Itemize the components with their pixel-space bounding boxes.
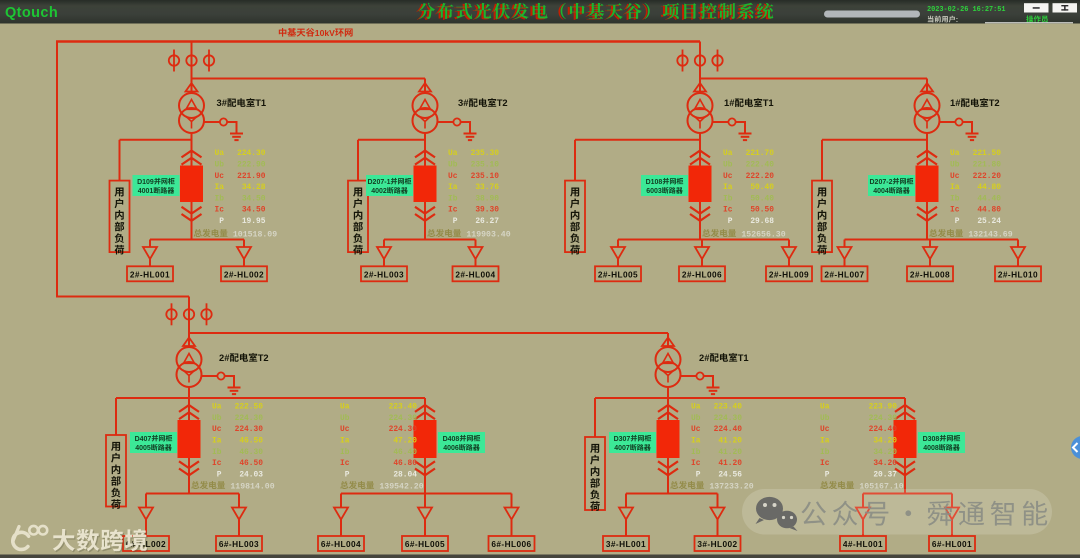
svg-text:Uc: Uc (212, 425, 222, 434)
svg-text:Ub: Ub (723, 161, 733, 170)
svg-text:224.30: 224.30 (869, 414, 898, 423)
svg-text:Ic: Ic (950, 206, 960, 215)
drawout contacts above breaker 4008断路器 (895, 405, 915, 412)
svg-text:Uc: Uc (820, 425, 830, 434)
svg-text:224.30: 224.30 (714, 414, 743, 423)
svg-text:235.30: 235.30 (471, 149, 500, 158)
svg-text:P: P (950, 217, 960, 226)
feeder wire 2#-HL003 (383, 240, 385, 248)
svg-text:224.40: 224.40 (869, 425, 898, 434)
wire riser to feeders 3#配电室T1 (191, 133, 193, 240)
riser wire 1#配电室T2 (926, 79, 928, 94)
feeder wire 6#-HL002 (145, 494, 147, 508)
feeder wire 3#-HL001 (625, 494, 627, 508)
svg-text:139542.20: 139542.20 (379, 482, 423, 491)
feeder wire 2#-HL006 (701, 240, 703, 248)
svg-text:222.50: 222.50 (235, 403, 264, 412)
svg-text:2#-HL008: 2#-HL008 (910, 270, 950, 280)
svg-text:4#-HL001: 4#-HL001 (843, 539, 883, 549)
cubicle label 1#配电室T1 (641, 175, 688, 196)
svg-text:2#-HL006: 2#-HL006 (682, 270, 722, 280)
svg-text:41.20: 41.20 (718, 459, 742, 468)
svg-text:25.24: 25.24 (977, 217, 1001, 226)
svg-text:2#-HL005: 2#-HL005 (598, 270, 638, 280)
branch wire 3#配电室T1 to next substation (192, 78, 426, 80)
svg-text:Ua: Ua (212, 403, 222, 412)
svg-text:Ub: Ub (950, 161, 960, 170)
drawout contacts above breaker 3#配电室T2 (415, 151, 435, 158)
arrow head 1#配电室T1 (694, 83, 706, 92)
feeder box 6#-HL002 (123, 536, 169, 551)
load box 用户内部负荷 3#配电室T1 (110, 181, 130, 253)
neutral earthing tap 3#配电室T1 (204, 118, 237, 133)
arrow head 2#配电室T1 (662, 338, 674, 347)
feeder box 2#-HL009 (766, 266, 812, 281)
feeder arrow 3#-HL002 (711, 508, 725, 520)
meter readings 4006断路器 (340, 403, 417, 480)
svg-text:Ua: Ua (448, 149, 458, 158)
feeder arrow 2#-HL003 (377, 247, 391, 259)
svg-text:4007: 4007 (614, 445, 630, 452)
svg-text:T2: T2 (258, 352, 269, 363)
svg-text:6003: 6003 (646, 188, 662, 195)
svg-text:3#: 3# (458, 97, 469, 108)
svg-text:34.50: 34.50 (242, 194, 266, 203)
svg-text:6#-HL001: 6#-HL001 (932, 539, 972, 549)
svg-text:44.40: 44.40 (977, 194, 1001, 203)
feeder box 3#-HL002 (695, 536, 741, 551)
feeder box 6#-HL001 (929, 536, 975, 551)
transformer 2#配电室T1 (656, 347, 681, 387)
svg-text:222.40: 222.40 (746, 161, 775, 170)
svg-text:D207-2: D207-2 (870, 179, 893, 186)
arrow head 2#配电室T2 (183, 338, 195, 347)
wire riser to feeders 4005断路器 (188, 398, 190, 494)
drawout contacts above breaker 4006断路器 (415, 405, 435, 412)
svg-text::: : (956, 15, 958, 24)
top title bar (0, 0, 1080, 24)
substation label 1#配电室T2 (950, 97, 1000, 108)
svg-text:223.90: 223.90 (869, 403, 898, 412)
svg-text:223.40: 223.40 (714, 403, 743, 412)
svg-text:Uc: Uc (950, 172, 960, 181)
feeder header wire 4008断路器 (863, 493, 952, 495)
svg-text:235.10: 235.10 (471, 161, 500, 170)
svg-text:10kV: 10kV (315, 28, 335, 38)
svg-text:4006: 4006 (443, 445, 459, 452)
svg-text:221.70: 221.70 (746, 149, 775, 158)
riser wire 1#配电室T1 (699, 42, 701, 94)
feeder arrow 2#-HL007 (838, 247, 852, 259)
bottom dark strip (0, 555, 1080, 558)
meter readings 4007断路器 (691, 403, 742, 480)
svg-text:Ua: Ua (820, 403, 830, 412)
svg-text:Ic: Ic (340, 459, 350, 468)
svg-text:2#-HL007: 2#-HL007 (824, 270, 864, 280)
feeder arrow 2#-HL002 (237, 247, 251, 259)
svg-text:Uc: Uc (340, 425, 350, 434)
feeder arrow 6#-HL006 (505, 508, 519, 520)
cubicle label 1#配电室T2 (868, 175, 915, 196)
load box 用户内部负荷 1#配电室T2 (812, 181, 832, 253)
cubicle label 4005断路器 (130, 432, 177, 453)
total energy readout 4006断路器 (340, 481, 374, 489)
svg-text:Ia: Ia (950, 183, 960, 192)
watermark pill 公众号 (742, 489, 1052, 535)
svg-text:34.50: 34.50 (242, 206, 266, 215)
svg-text:119903.40: 119903.40 (466, 230, 510, 239)
feeder box 2#-HL004 (453, 266, 499, 281)
ground 2#配电室T1 (707, 388, 720, 395)
disconnect switches QS2 (1#配电室T1) (677, 50, 722, 72)
svg-text:Ia: Ia (215, 183, 225, 192)
drawout contacts below breaker 4005断路器 (179, 461, 199, 468)
title shadow 分布式光伏发电（中基天谷）项目控制系统 (416, 4, 771, 20)
underline under 操作员 (985, 22, 1073, 23)
meter readings 1#配电室T2 (950, 149, 1001, 226)
svg-text:235.10: 235.10 (471, 172, 500, 181)
svg-text:D207-1: D207-1 (368, 179, 391, 186)
drawout contacts above breaker 4005断路器 (179, 405, 199, 412)
feeder arrow 2#-HL009 (782, 247, 796, 259)
svg-text:Ua: Ua (340, 403, 350, 412)
svg-text:Ua: Ua (691, 403, 701, 412)
svg-text:P: P (448, 217, 458, 226)
bus 10kV ring main (56, 40, 700, 42)
feeder wire 2#-HL005 (617, 240, 619, 248)
wire riser to feeders 3#配电室T2 (424, 133, 426, 240)
feeder wire 3#-HL002 (717, 494, 719, 508)
feeder wire 2#-HL007 (844, 240, 846, 248)
svg-text:19.95: 19.95 (242, 217, 266, 226)
svg-text:3#-HL002: 3#-HL002 (697, 539, 737, 549)
svg-text:2023-02-26 16:27:51: 2023-02-26 16:27:51 (927, 6, 1006, 14)
feeder box 6#-HL006 (489, 536, 535, 551)
feeder box 2#-HL010 (995, 266, 1041, 281)
svg-text:50.40: 50.40 (750, 183, 774, 192)
close button (1053, 3, 1078, 12)
substation label 3#配电室T1 (217, 97, 267, 108)
svg-text:47.20: 47.20 (393, 437, 417, 446)
feeder box 2#-HL007 (822, 266, 868, 281)
ground 2#配电室T2 (228, 388, 241, 395)
svg-text:20.37: 20.37 (873, 470, 897, 479)
svg-text:Ic: Ic (691, 459, 701, 468)
svg-text:Ib: Ib (691, 448, 701, 457)
feeder box 6#-HL005 (402, 536, 448, 551)
neutral earthing tap 1#配电室T1 (712, 118, 745, 133)
svg-text:2#-HL001: 2#-HL001 (130, 270, 170, 280)
svg-text:221.80: 221.80 (973, 161, 1002, 170)
neutral earthing tap 1#配电室T2 (939, 118, 972, 133)
svg-text:Ub: Ub (212, 414, 222, 423)
cubicle label 4008断路器 (918, 432, 965, 453)
breaker 1#配电室T2 (closed) (916, 166, 939, 203)
feeder wire 2#-HL009 (788, 240, 790, 248)
junction wire 2#配电室T2 (116, 397, 425, 399)
svg-text:6#-HL005: 6#-HL005 (405, 539, 445, 549)
breaker 3#配电室T1 (closed) (180, 166, 203, 203)
svg-text:Ib: Ib (950, 194, 960, 203)
wire riser to feeders 4007断路器 (667, 398, 669, 494)
svg-text:P: P (340, 470, 350, 479)
bus label 中基天谷10kV环网 (279, 28, 353, 38)
svg-text:119814.00: 119814.00 (230, 482, 274, 491)
minimize button (1024, 3, 1049, 12)
feeder header wire 4005断路器 (146, 493, 239, 495)
watermark text 公众号·舜通智能 (801, 501, 1047, 526)
load box 用户内部负荷 2#配电室T2 (106, 435, 126, 507)
svg-text:Ic: Ic (723, 206, 733, 215)
wire riser to feeders 1#配电室T2 (926, 133, 928, 240)
svg-text:D307: D307 (614, 436, 631, 443)
drawout contacts above breaker 1#配电室T1 (690, 151, 710, 158)
svg-text:44.80: 44.80 (977, 206, 1001, 215)
feeder arrow 2#-HL005 (611, 247, 625, 259)
svg-text:41.20: 41.20 (718, 437, 742, 446)
junction wire 3#配电室T2 (358, 139, 425, 141)
breaker 4007断路器 (closed) (657, 420, 680, 458)
feeder box 6#-HL003 (216, 536, 262, 551)
svg-text:T1: T1 (738, 352, 749, 363)
feeder arrow 4#-HL001 (856, 508, 870, 520)
svg-text:38.90: 38.90 (475, 194, 499, 203)
disconnect switches QS1 (3#配电室T1) (169, 50, 214, 72)
neutral earthing tap 3#配电室T2 (437, 118, 470, 133)
svg-text:6#-HL003: 6#-HL003 (219, 539, 259, 549)
svg-text:Ib: Ib (340, 448, 350, 457)
junction wire 2#配电室T1 (595, 397, 905, 399)
substation label 3#配电室T2 (458, 97, 508, 108)
feeder header wire 1#配电室T1 (618, 239, 789, 241)
cubicle label 3#配电室T2 (366, 175, 413, 196)
drawout contacts below breaker 3#配电室T2 (415, 207, 435, 214)
svg-text:Uc: Uc (448, 172, 458, 181)
meter readings 3#配电室T1 (215, 149, 266, 226)
svg-text:4008: 4008 (923, 445, 939, 452)
wire riser to feeders 4008断路器 (904, 398, 906, 494)
svg-text:Uc: Uc (691, 425, 701, 434)
feeder wire 6#-HL001 (951, 494, 953, 508)
total energy readout 4008断路器 (820, 481, 854, 489)
svg-text:3#: 3# (217, 97, 228, 108)
svg-text:224.30: 224.30 (389, 425, 418, 434)
svg-text:3#-HL001: 3#-HL001 (606, 539, 646, 549)
svg-text:D109: D109 (137, 179, 154, 186)
svg-text:Ub: Ub (448, 161, 458, 170)
svg-text:34.28: 34.28 (242, 183, 266, 192)
total energy readout 1#配电室T2 (929, 229, 963, 237)
svg-text:Ia: Ia (212, 437, 222, 446)
label 操作员 (1026, 15, 1048, 22)
toolbar slider pill (824, 11, 920, 18)
svg-text:4004: 4004 (873, 188, 889, 195)
svg-text:224.30: 224.30 (235, 425, 264, 434)
feeder arrow 6#-HL003 (232, 508, 246, 520)
svg-text:39.30: 39.30 (475, 206, 499, 215)
svg-text:Ib: Ib (723, 194, 733, 203)
svg-text:223.40: 223.40 (389, 403, 418, 412)
svg-text:T2: T2 (989, 97, 1000, 108)
feeder arrow 6#-HL002 (139, 508, 153, 520)
svg-text:D108: D108 (646, 179, 663, 186)
svg-text:2#: 2# (699, 352, 710, 363)
svg-text:P: P (820, 470, 830, 479)
transformer 3#配电室T1 (179, 93, 204, 133)
total energy readout 3#配电室T1 (194, 229, 228, 237)
drawout contacts below breaker 1#配电室T2 (917, 207, 937, 214)
svg-text:Ia: Ia (340, 437, 350, 446)
svg-text:Ib: Ib (448, 194, 458, 203)
riser wire 3#配电室T1 (191, 42, 193, 94)
feeder header wire 3#配电室T2 (384, 239, 476, 241)
feeder box 2#-HL002 (221, 266, 267, 281)
wire bus left feeder drop (57, 42, 189, 297)
svg-text:Ub: Ub (820, 414, 830, 423)
riser wire 3#配电室T2 (424, 79, 426, 94)
svg-text:222.90: 222.90 (237, 161, 266, 170)
watermark text 大数跨境 (54, 530, 148, 552)
svg-text:6#-HL006: 6#-HL006 (491, 539, 531, 549)
feeder header wire 1#配电室T2 (845, 239, 1019, 241)
svg-text:26.27: 26.27 (475, 217, 499, 226)
feeder arrow 6#-HL004 (334, 508, 348, 520)
svg-text:P: P (212, 470, 222, 479)
svg-text:Ic: Ic (212, 459, 222, 468)
feeder wire 2#-HL001 (149, 240, 151, 248)
svg-text:1#: 1# (950, 97, 961, 108)
transformer 2#配电室T2 (177, 347, 202, 387)
feeder box 3#-HL001 (603, 536, 649, 551)
svg-text:P: P (691, 470, 701, 479)
svg-text:Ic: Ic (448, 206, 458, 215)
svg-text:2#-HL009: 2#-HL009 (769, 270, 809, 280)
svg-text:34.20: 34.20 (873, 437, 897, 446)
svg-text:222.20: 222.20 (973, 172, 1002, 181)
total energy readout 1#配电室T1 (702, 229, 736, 237)
svg-text:Ib: Ib (215, 194, 225, 203)
total energy readout 3#配电室T2 (427, 229, 461, 237)
svg-text:2#: 2# (219, 352, 230, 363)
svg-text:2#-HL002: 2#-HL002 (224, 270, 264, 280)
riser wire 2#配电室T1 (667, 333, 669, 347)
arrow head 1#配电室T2 (921, 83, 933, 92)
drawout contacts below breaker 3#配电室T1 (182, 207, 202, 214)
svg-text:Ib: Ib (212, 448, 222, 457)
feeder wire 2#-HL008 (929, 240, 931, 248)
svg-text:4005: 4005 (135, 445, 151, 452)
drawout contacts below breaker 4006断路器 (415, 461, 435, 468)
svg-text:1#: 1# (724, 97, 735, 108)
svg-text:T1: T1 (255, 97, 266, 108)
svg-text:137233.20: 137233.20 (709, 482, 753, 491)
svg-text:221.50: 221.50 (973, 149, 1002, 158)
watermark logo 大数跨境 (13, 526, 47, 550)
drawout contacts above breaker 4007断路器 (658, 405, 678, 412)
svg-text:34.20: 34.20 (873, 448, 897, 457)
feeder box 2#-HL003 (361, 266, 407, 281)
svg-text:P: P (723, 217, 733, 226)
svg-text:2#-HL010: 2#-HL010 (998, 270, 1038, 280)
label 当前用户: (928, 15, 958, 24)
svg-text:132143.69: 132143.69 (968, 230, 1012, 239)
transformer 3#配电室T2 (413, 93, 438, 133)
feeder arrow 2#-HL008 (923, 247, 937, 259)
svg-text:Ub: Ub (340, 414, 350, 423)
svg-text:222.20: 222.20 (746, 172, 775, 181)
wire riser to feeders 1#配电室T1 (699, 133, 701, 240)
feeder wire 6#-HL004 (340, 494, 342, 508)
svg-text:41.20: 41.20 (718, 448, 742, 457)
drawout contacts below breaker 4008断路器 (895, 461, 915, 468)
junction wire 1#配电室T2 (822, 139, 927, 141)
feeder arrow 2#-HL010 (1011, 247, 1025, 259)
svg-text:46.30: 46.30 (239, 448, 263, 457)
svg-text:46.50: 46.50 (239, 459, 263, 468)
svg-text:28.04: 28.04 (393, 470, 417, 479)
svg-text:Ia: Ia (691, 437, 701, 446)
load box 用户内部负荷 3#配电室T2 (348, 181, 368, 253)
junction wire 3#配电室T1 (120, 139, 192, 141)
feeder wire 6#-HL003 (238, 494, 240, 508)
svg-text:D407: D407 (135, 436, 152, 443)
svg-text:46.80: 46.80 (393, 459, 417, 468)
load box 用户内部负荷 1#配电室T1 (565, 181, 585, 253)
feeder wire 2#-HL004 (475, 240, 477, 248)
svg-text:34.20: 34.20 (873, 459, 897, 468)
riser wire 2#配电室T2 (188, 297, 190, 348)
svg-text:Ua: Ua (215, 149, 225, 158)
svg-text:Uc: Uc (215, 172, 225, 181)
svg-text:Ia: Ia (448, 183, 458, 192)
feeder box 4#-HL001 (840, 536, 886, 551)
ground 1#配电室T1 (739, 134, 752, 141)
svg-text:T1: T1 (763, 97, 774, 108)
feeder wire 6#-HL005 (424, 494, 426, 508)
disconnect switches QS3 (2#配电室T2) (166, 303, 211, 325)
cubicle label 4007断路器 (609, 432, 656, 453)
feeder arrow 2#-HL004 (469, 247, 483, 259)
substation label 2#配电室T2 (219, 352, 269, 363)
svg-text:Uc: Uc (723, 172, 733, 181)
neutral earthing tap 2#配电室T2 (201, 372, 234, 387)
feeder header wire 4006断路器 (341, 493, 512, 495)
feeder header wire 4007断路器 (626, 493, 718, 495)
feeder arrow 6#-HL001 (945, 508, 959, 520)
svg-text:Ic: Ic (820, 459, 830, 468)
title 分布式光伏发电（中基天谷）项目控制系统 (418, 3, 773, 19)
feeder box 2#-HL008 (907, 266, 953, 281)
svg-text:29.68: 29.68 (750, 217, 774, 226)
feeder arrow 3#-HL001 (619, 508, 633, 520)
drawout contacts below breaker 4007断路器 (658, 461, 678, 468)
wire riser to feeders 4006断路器 (424, 398, 426, 494)
feeder arrow 6#-HL005 (418, 508, 432, 520)
cubicle label 4006断路器 (438, 432, 485, 453)
svg-text:Ic: Ic (215, 206, 225, 215)
svg-text:221.90: 221.90 (237, 172, 266, 181)
svg-text:P: P (215, 217, 225, 226)
svg-text:46.50: 46.50 (239, 437, 263, 446)
ground 3#配电室T1 (230, 134, 243, 141)
meter readings 3#配电室T2 (448, 149, 499, 226)
meter readings 4008断路器 (820, 403, 897, 480)
load box 用户内部负荷 2#配电室T1 (585, 437, 605, 510)
feeder box 2#-HL006 (679, 266, 725, 281)
branch wire 1#配电室T1 to next substation (700, 78, 927, 80)
feeder wire 4#-HL001 (862, 494, 864, 508)
drawout contacts below breaker 1#配电室T1 (690, 207, 710, 214)
